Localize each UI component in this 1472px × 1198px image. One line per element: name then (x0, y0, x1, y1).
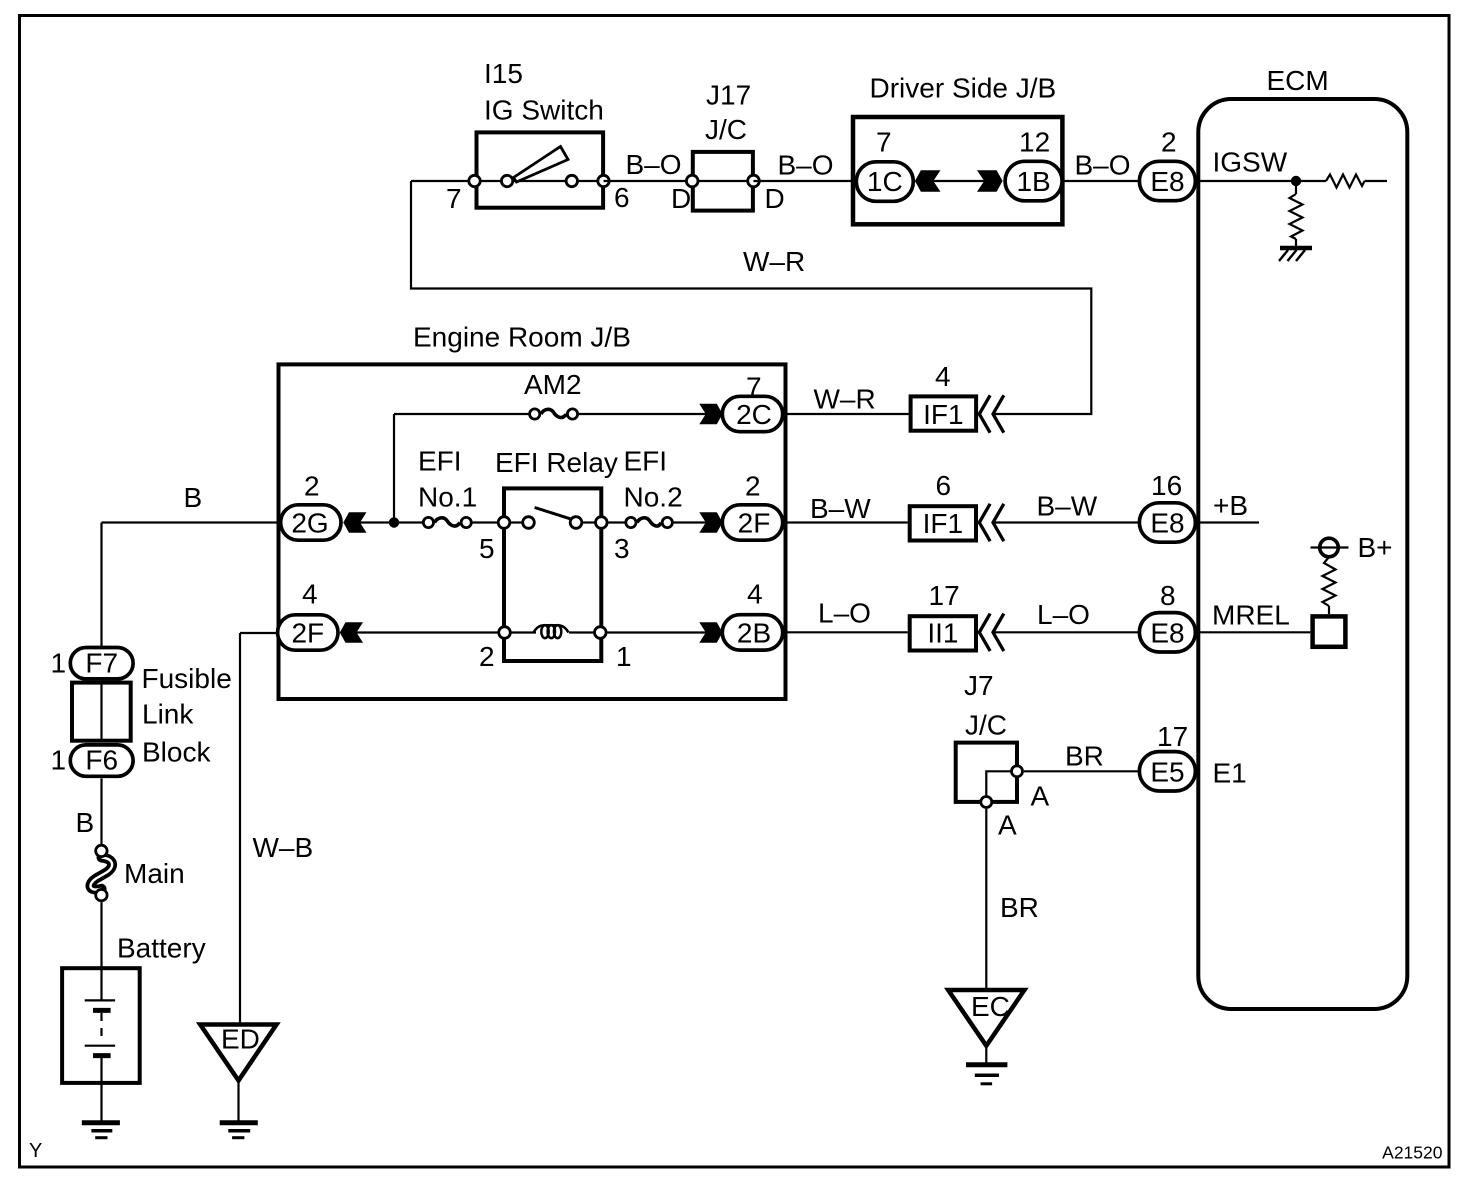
wire 2B to II1 (784, 631, 908, 633)
wire AM2 branch vertical (393, 414, 395, 523)
resistor vertical IGSW (1290, 194, 1303, 239)
svg-text:Fusible: Fusible (142, 663, 232, 694)
svg-text:W–R: W–R (814, 384, 876, 415)
wire 2G arrow to EFI No.1 fuse (360, 521, 423, 523)
wire 2F left to relay pin2 (356, 631, 499, 633)
svg-text:EFI Relay: EFI Relay (495, 447, 618, 478)
wire AM2 row left (394, 413, 529, 415)
svg-text:7: 7 (876, 127, 892, 158)
svg-text:F7: F7 (85, 648, 118, 679)
ground triangle EC (948, 990, 1024, 1046)
chevrons IF1 row1 (979, 397, 1003, 432)
svg-text:B–O: B–O (626, 149, 682, 180)
wire 1C to 1B (931, 180, 987, 182)
connector IF1 box row1 (911, 396, 977, 430)
resistor vertical B+ (1323, 557, 1336, 606)
wire battery to ground (100, 1056, 102, 1123)
wire II1 to E8 MREL (993, 631, 1139, 633)
connector E8 pin16 oval (1139, 503, 1195, 542)
svg-text:Y: Y (29, 1140, 42, 1162)
switch SW1 IG Switch box (477, 132, 604, 207)
relay pin 2 terminal (499, 627, 511, 639)
svg-text:D: D (671, 183, 691, 214)
svg-text:No.2: No.2 (624, 482, 683, 513)
junction connector J7 box (956, 743, 1017, 802)
connector 2B oval (722, 615, 782, 650)
svg-text:E8: E8 (1150, 508, 1184, 539)
connector 2F left oval (278, 615, 338, 650)
svg-text:Link: Link (142, 699, 194, 730)
svg-text:+B: +B (1213, 490, 1248, 521)
wire junction down (1295, 181, 1297, 194)
svg-text:No.1: No.1 (418, 482, 477, 513)
svg-text:4: 4 (935, 361, 951, 392)
svg-text:E5: E5 (1150, 756, 1184, 787)
svg-text:ED: ED (221, 1024, 260, 1055)
svg-text:2: 2 (479, 641, 495, 672)
wire J17 internal (692, 180, 753, 182)
B+ terminal circle (1320, 538, 1339, 557)
svg-text:4: 4 (747, 579, 763, 610)
svg-text:2F: 2F (291, 618, 324, 649)
connector 2C oval (722, 396, 782, 431)
wire relay pin5 to pivot (504, 521, 529, 523)
wire MREL to driver square (1197, 631, 1310, 633)
relay pivot terminal (523, 517, 535, 529)
svg-text:B–O: B–O (778, 150, 834, 181)
battery cell plate short 1 (93, 1008, 111, 1013)
arrow left at 1C (915, 170, 941, 191)
svg-text:B–W: B–W (1037, 491, 1098, 522)
svg-text:7: 7 (446, 183, 462, 214)
J17 terminal D right (748, 175, 760, 187)
wire 2F to IF1 row2 (784, 521, 908, 523)
svg-text:EFI: EFI (418, 446, 462, 477)
connector IF1 box row2 (910, 506, 976, 540)
svg-text:E1: E1 (1213, 758, 1247, 789)
junction block Engine Room J/B box (279, 364, 786, 699)
svg-text:BR: BR (1000, 892, 1039, 923)
svg-text:ECM: ECM (1267, 65, 1329, 96)
J7 terminal A bottom (981, 797, 992, 808)
wire B row to 2G (102, 521, 281, 523)
svg-text:B–W: B–W (810, 493, 871, 524)
wire coil to pin1 (569, 631, 600, 633)
svg-text:Main: Main (124, 858, 185, 889)
battery cell plate short 2 (93, 1053, 111, 1058)
svg-text:L–O: L–O (818, 598, 871, 629)
arrow left at 2G (343, 512, 366, 532)
svg-text:3: 3 (614, 533, 630, 564)
connector E5 oval (1139, 752, 1195, 791)
svg-text:J/C: J/C (705, 114, 747, 145)
wire relay contact to pin3 (576, 521, 601, 523)
junction block Driver Side J/B box (853, 117, 1062, 224)
switch contact terminal (566, 175, 577, 186)
svg-text:5: 5 (479, 533, 495, 564)
relay pin 3 terminal (596, 517, 608, 529)
MREL driver square (1313, 616, 1346, 646)
ground triangle ED (200, 1025, 276, 1081)
svg-text:2F: 2F (738, 508, 771, 539)
wire Main to Battery (100, 902, 102, 966)
resistor horizontal IGSW (1326, 175, 1365, 188)
svg-text:7: 7 (746, 372, 762, 403)
svg-text:4: 4 (302, 579, 318, 610)
wire pin3 to fuse No.2 (608, 521, 624, 523)
connector 2F right oval (722, 505, 782, 540)
wire F6 to Main fuse (100, 778, 102, 844)
wire through B+ circle (1311, 546, 1349, 548)
wire 1B to E8 (1064, 180, 1139, 182)
wire W-B from 2F left down to ED (239, 633, 241, 1023)
wire fuse No.2 to 2F (674, 521, 707, 523)
wire BR vertical to EC (985, 809, 987, 988)
arrow right at 2B (699, 622, 722, 642)
pin 6 terminal (598, 175, 609, 186)
relay contact terminal (570, 517, 582, 529)
wire pin7 to left corner (411, 180, 475, 182)
svg-text:D: D (765, 183, 785, 214)
svg-text:B: B (76, 807, 95, 838)
wire pin1 to 2B (607, 631, 706, 633)
fusible link block box (72, 683, 131, 741)
switch pivot terminal (501, 175, 512, 186)
relay pin 1 terminal (595, 627, 607, 639)
wire W-R from pin7 down and across (411, 181, 1091, 414)
svg-text:I15: I15 (484, 58, 523, 89)
ground battery (82, 1120, 120, 1125)
svg-text:IF1: IF1 (923, 399, 963, 430)
J7 terminal A right (1012, 766, 1023, 777)
svg-text:1B: 1B (1016, 166, 1050, 197)
svg-text:Driver Side J/B: Driver Side J/B (870, 73, 1057, 104)
connector E8 pin2 oval (1139, 161, 1195, 200)
svg-text:17: 17 (1157, 721, 1188, 752)
fusible link Main (90, 845, 112, 901)
svg-text:EC: EC (971, 991, 1010, 1022)
arrow right at 2F (699, 512, 722, 532)
svg-text:16: 16 (1151, 470, 1182, 501)
connector 1B oval (1005, 161, 1062, 201)
svg-text:2: 2 (745, 471, 761, 502)
svg-text:1C: 1C (867, 166, 903, 197)
node junction IGSW (1291, 176, 1301, 186)
svg-text:A21520: A21520 (1382, 1143, 1443, 1163)
wire J7 to E5 (1024, 770, 1139, 772)
svg-text:1: 1 (51, 648, 67, 679)
arrow left at 2F left (340, 622, 363, 642)
wire square to resistor (1328, 606, 1330, 614)
svg-text:2G: 2G (291, 508, 328, 539)
ECM box (1198, 99, 1407, 1009)
arrow right at 2C (699, 404, 722, 424)
wire pin6 to J17 (604, 180, 693, 182)
svg-text:A: A (1031, 781, 1050, 812)
svg-text:W–B: W–B (253, 832, 314, 863)
svg-text:17: 17 (929, 580, 960, 611)
battery BAT box (62, 968, 140, 1083)
svg-text:B: B (184, 482, 203, 513)
arrow right at 1B (977, 170, 1003, 191)
battery dashed link (100, 1013, 102, 1043)
wire through block (100, 681, 102, 742)
svg-text:IF1: IF1 (923, 508, 963, 539)
svg-text:EFI: EFI (624, 446, 668, 477)
battery cell plate long 1 (85, 999, 115, 1001)
battery cell plate long 2 (85, 1045, 115, 1047)
svg-text:12: 12 (1019, 127, 1050, 158)
svg-text:J17: J17 (706, 80, 751, 111)
connector F6 oval (70, 745, 133, 776)
svg-text:II1: II1 (927, 618, 958, 649)
wire pin2 to coil (505, 631, 537, 633)
wire IGSW internal (1197, 180, 1326, 182)
svg-text:MREL: MREL (1212, 600, 1290, 631)
svg-text:A: A (998, 810, 1017, 841)
wire B vertical to F7 (100, 523, 102, 649)
wire +B stub (1197, 521, 1259, 523)
connector 2G oval (281, 505, 341, 540)
svg-text:1: 1 (51, 745, 67, 776)
junction connector J17 box (693, 152, 753, 211)
svg-text:F6: F6 (85, 745, 118, 776)
wire 2C to IF1 (784, 413, 909, 415)
wire resistor to ground (1295, 239, 1297, 248)
relay EFI Relay box (504, 488, 601, 661)
J17 terminal D left (686, 175, 698, 187)
relay pin 5 terminal (498, 517, 510, 529)
fuse EFI No.1 (423, 517, 471, 527)
svg-text:2: 2 (304, 471, 320, 502)
svg-text:B+: B+ (1358, 532, 1393, 563)
svg-text:B–O: B–O (1075, 150, 1131, 181)
wire AM2 fuse to 2C (579, 413, 707, 415)
wire after resistor (1365, 180, 1388, 182)
chevrons II1 (979, 615, 1003, 650)
fuse EFI No.2 (626, 517, 673, 527)
ground EC (966, 1062, 1007, 1067)
svg-text:1: 1 (616, 641, 632, 672)
relay blade (535, 508, 575, 521)
svg-text:6: 6 (936, 470, 952, 501)
wire IG switch internal (475, 180, 604, 182)
switch blade (514, 147, 569, 183)
svg-text:Engine Room J/B: Engine Room J/B (413, 322, 631, 353)
connector 1C oval (856, 162, 913, 202)
wire IF1 to E8 +B (993, 521, 1139, 523)
svg-text:J7: J7 (964, 670, 994, 701)
svg-text:E8: E8 (1150, 166, 1184, 197)
pin 7 terminal (469, 175, 480, 186)
svg-text:8: 8 (1160, 580, 1176, 611)
svg-text:Block: Block (142, 737, 211, 768)
svg-text:2B: 2B (737, 618, 771, 649)
svg-text:2C: 2C (736, 399, 772, 430)
svg-text:AM2: AM2 (524, 369, 582, 400)
svg-text:E8: E8 (1150, 617, 1184, 648)
svg-text:BR: BR (1065, 741, 1104, 772)
ground ED (220, 1120, 258, 1125)
wire J17 to Driver Side J/B (754, 180, 855, 182)
svg-text:IG Switch: IG Switch (484, 95, 604, 126)
connector II1 box (910, 616, 976, 650)
svg-text:W–R: W–R (743, 246, 805, 277)
wire W-B row to 2F left (240, 632, 277, 634)
wire ED to ground (237, 1082, 239, 1123)
svg-text:6: 6 (614, 182, 630, 213)
wire J7 internal L (986, 771, 1017, 803)
svg-text:L–O: L–O (1037, 599, 1090, 630)
wire EC to ground (985, 1048, 987, 1065)
svg-text:IGSW: IGSW (1213, 147, 1288, 178)
chassis ground IGSW (1280, 246, 1312, 251)
svg-text:J/C: J/C (965, 710, 1007, 741)
chevrons IF1 row2 (979, 505, 1003, 540)
svg-text:2: 2 (1161, 127, 1177, 158)
svg-text:Battery: Battery (117, 933, 206, 964)
wire into battery (100, 966, 102, 1000)
connector F7 oval (70, 648, 133, 679)
connector E8 pin8 oval (1139, 613, 1195, 652)
fuse AM2 (530, 409, 578, 419)
node junction AM2 branch (389, 517, 399, 527)
wire fuse to relay pin5 (472, 521, 504, 523)
relay coil (534, 625, 569, 638)
